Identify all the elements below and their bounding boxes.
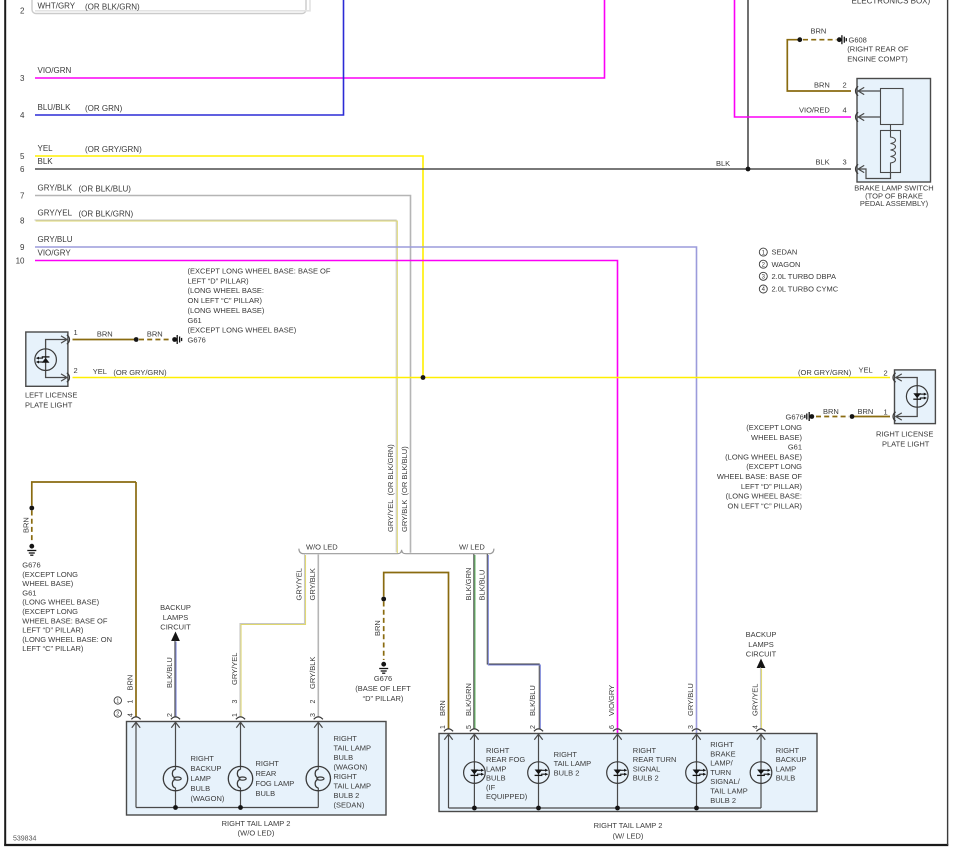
svg-text:RIGHT: RIGHT xyxy=(334,772,358,781)
svg-text:RIGHT: RIGHT xyxy=(486,746,510,755)
LED left license xyxy=(35,349,57,371)
svg-text:3: 3 xyxy=(688,725,695,729)
svg-text:SEDAN: SEDAN xyxy=(772,248,798,257)
wire BLK/GRN branch to right box xyxy=(473,554,475,729)
svg-text:(BASE OF LEFT: (BASE OF LEFT xyxy=(355,684,411,693)
pin 1 connector xyxy=(893,412,896,421)
wire internal left license xyxy=(46,340,67,378)
svg-text:6: 6 xyxy=(20,165,25,174)
bus right box xyxy=(449,807,762,809)
svg-text:RIGHT: RIGHT xyxy=(191,754,215,763)
svg-text:4: 4 xyxy=(128,713,135,717)
svg-text:GRY/BLK: GRY/BLK xyxy=(38,184,73,193)
pin connector xyxy=(613,729,622,731)
wire GRY/YEL row 8 xyxy=(34,220,396,552)
svg-text:YEL: YEL xyxy=(38,144,54,153)
wire internal pin2 xyxy=(858,90,881,92)
svg-text:2: 2 xyxy=(530,725,537,729)
brake switch contact block xyxy=(881,89,904,125)
arrow xyxy=(896,374,902,381)
pin connector xyxy=(856,164,859,173)
circled 1 xyxy=(114,697,121,704)
svg-text:BRN: BRN xyxy=(814,81,830,90)
svg-text:2: 2 xyxy=(116,712,119,718)
svg-text:2: 2 xyxy=(74,366,78,375)
svg-text:RIGHT: RIGHT xyxy=(633,746,657,755)
svg-text:TAIL LAMP: TAIL LAMP xyxy=(334,744,372,753)
bulb right tail lamp xyxy=(306,766,330,790)
wire internal from bulb xyxy=(240,788,242,808)
svg-text:RIGHT: RIGHT xyxy=(776,746,800,755)
wire GRY/BLU row 9 xyxy=(35,247,697,734)
notes sedan/wagon/turbo xyxy=(759,248,767,256)
pin 1 connector xyxy=(67,335,70,344)
svg-text:(EXCEPT LONG WHEEL BASE): (EXCEPT LONG WHEEL BASE) xyxy=(188,326,297,335)
bus left box xyxy=(136,807,318,809)
LED right rear fog xyxy=(464,762,486,784)
LED right backup xyxy=(750,762,772,784)
junction xyxy=(29,506,34,511)
arrow xyxy=(858,87,864,94)
svg-text:RIGHT LICENSE: RIGHT LICENSE xyxy=(876,430,933,439)
svg-text:BULB 2: BULB 2 xyxy=(633,774,659,783)
svg-text:GRY/YEL: GRY/YEL xyxy=(751,684,760,716)
svg-text:W/ LED: W/ LED xyxy=(459,543,485,552)
svg-text:ELECTRONICS BOX): ELECTRONICS BOX) xyxy=(852,0,931,6)
svg-text:BRN: BRN xyxy=(126,675,135,691)
svg-text:(EXCEPT LONG: (EXCEPT LONG xyxy=(746,462,802,471)
wire GRY/YEL to right box xyxy=(759,667,761,728)
svg-text:1: 1 xyxy=(884,408,888,417)
svg-text:(OR GRY/GRN): (OR GRY/GRN) xyxy=(113,368,167,377)
bulb right backup lamp (wagon) xyxy=(163,766,187,790)
svg-text:SIGNAL/: SIGNAL/ xyxy=(710,777,741,786)
wire BLK vertical from top xyxy=(747,0,749,169)
junction xyxy=(837,37,842,42)
svg-text:BLK/BLU: BLK/BLU xyxy=(165,657,174,688)
arrow xyxy=(534,734,542,740)
svg-text:TAIL LAMP: TAIL LAMP xyxy=(334,782,372,791)
pin connector xyxy=(131,717,140,719)
svg-text:BULB 2: BULB 2 xyxy=(554,768,580,777)
svg-text:RIGHT TAIL LAMP 2: RIGHT TAIL LAMP 2 xyxy=(222,819,291,828)
right tail lamp 2 (W/ LED) box xyxy=(439,734,817,812)
svg-text:BRN: BRN xyxy=(21,517,30,533)
svg-text:LAMP: LAMP xyxy=(191,774,211,783)
wire BRN left license xyxy=(73,339,135,341)
wire BRN to G676 far left xyxy=(32,482,136,506)
arrow xyxy=(470,734,478,740)
wire BLK/BLU branch to right box xyxy=(487,554,539,729)
coil xyxy=(891,125,896,173)
pin connector xyxy=(470,729,479,731)
svg-text:ON LEFT “C” PILLAR): ON LEFT “C” PILLAR) xyxy=(188,296,263,305)
pin connector xyxy=(314,717,323,719)
svg-text:5: 5 xyxy=(466,725,473,729)
svg-text:BULB: BULB xyxy=(334,753,354,762)
svg-text:LAMP/: LAMP/ xyxy=(710,759,733,768)
svg-text:3: 3 xyxy=(20,74,25,83)
svg-text:(OR GRN): (OR GRN) xyxy=(85,104,123,113)
svg-text:BULB: BULB xyxy=(486,774,506,783)
pin connector xyxy=(856,86,859,95)
svg-text:(LONG WHEEL BASE): (LONG WHEEL BASE) xyxy=(188,306,265,315)
svg-text:PEDAL ASSEMBLY): PEDAL ASSEMBLY) xyxy=(860,199,929,208)
wire BRN dashed center xyxy=(383,602,385,661)
svg-text:BLK: BLK xyxy=(716,159,730,168)
svg-text:BULB 2: BULB 2 xyxy=(334,791,360,800)
wire internal to bulb xyxy=(317,722,319,770)
svg-text:GRY/BLK: GRY/BLK xyxy=(308,657,317,689)
ground G676 center xyxy=(379,669,388,674)
ground G676 xyxy=(27,551,36,556)
svg-text:BLK: BLK xyxy=(816,158,830,167)
arrow xyxy=(613,734,621,740)
wire GRY/BLK branch to left box xyxy=(317,555,319,718)
svg-text:BACKUP: BACKUP xyxy=(160,603,191,612)
svg-text:BULB: BULB xyxy=(191,784,211,793)
bulb right rear fog lamp xyxy=(228,766,252,790)
svg-text:4: 4 xyxy=(753,725,760,729)
svg-text:W/O LED: W/O LED xyxy=(306,543,338,552)
svg-text:(LONG WHEEL BASE:: (LONG WHEEL BASE: xyxy=(188,286,264,295)
arrow xyxy=(171,722,179,728)
svg-text:LEFT “D” PILLAR): LEFT “D” PILLAR) xyxy=(741,482,803,491)
svg-text:2.0L TURBO CYMC: 2.0L TURBO CYMC xyxy=(772,285,839,294)
wire VIO/GRY row 10 xyxy=(35,261,618,734)
svg-text:WHEEL BASE): WHEEL BASE) xyxy=(751,433,802,442)
svg-text:TAIL LAMP: TAIL LAMP xyxy=(710,787,748,796)
frame left border xyxy=(4,0,6,846)
svg-text:1: 1 xyxy=(116,699,119,705)
arrow xyxy=(444,734,452,740)
svg-text:2: 2 xyxy=(843,81,847,90)
circled 2 xyxy=(114,710,121,717)
svg-text:1: 1 xyxy=(440,725,447,729)
frame bottom border xyxy=(4,844,948,846)
svg-text:BLK/BLU: BLK/BLU xyxy=(528,685,537,716)
wire internal LED column xyxy=(760,734,762,809)
arrow xyxy=(858,113,864,120)
svg-text:(WAGON): (WAGON) xyxy=(191,794,225,803)
svg-text:CIRCUIT: CIRCUIT xyxy=(746,650,777,659)
svg-text:BULB: BULB xyxy=(256,789,276,798)
wire GRY/YEL branch to left box xyxy=(240,554,305,717)
wire internal from bulb xyxy=(175,788,177,808)
svg-text:(LONG WHEEL BASE): (LONG WHEEL BASE) xyxy=(725,452,802,461)
ground G608 xyxy=(842,35,846,44)
junction BLK xyxy=(746,167,751,172)
junction bus xyxy=(536,806,541,811)
wire BLK row 6 xyxy=(35,168,851,170)
svg-text:(SEDAN): (SEDAN) xyxy=(334,801,365,810)
svg-text:EQUIPPED): EQUIPPED) xyxy=(486,792,528,801)
svg-text:GRY/BLU: GRY/BLU xyxy=(686,683,695,716)
junction xyxy=(797,37,802,42)
wire BRN right license xyxy=(852,416,890,418)
svg-text:2.0L TURBO DBPA: 2.0L TURBO DBPA xyxy=(772,272,836,281)
svg-text:2: 2 xyxy=(20,7,25,16)
svg-text:(OR BLK/GRN): (OR BLK/GRN) xyxy=(85,3,140,12)
junction xyxy=(809,414,814,419)
svg-text:ON LEFT “C” PILLAR): ON LEFT “C” PILLAR) xyxy=(728,501,803,510)
svg-text:GRY/BLK (OR BLK/BLU): GRY/BLK (OR BLK/BLU) xyxy=(400,446,409,532)
wire BRN center to right box xyxy=(384,573,449,730)
svg-text:(OR BLK/BLU): (OR BLK/BLU) xyxy=(79,185,132,194)
pin connector xyxy=(444,729,453,731)
wire internal col1 right box xyxy=(448,734,450,809)
svg-text:GRY/YEL: GRY/YEL xyxy=(295,568,304,600)
svg-text:RIGHT: RIGHT xyxy=(334,734,358,743)
arrow xyxy=(757,734,765,740)
svg-text:ENGINE COMPT): ENGINE COMPT) xyxy=(847,54,908,63)
LED right license xyxy=(906,386,928,408)
svg-text:3: 3 xyxy=(310,713,317,717)
svg-text:VIO/GRY: VIO/GRY xyxy=(38,249,72,258)
arrow backup left xyxy=(171,632,180,642)
svg-text:LEFT LICENSE: LEFT LICENSE xyxy=(25,391,77,400)
svg-text:GRY/YEL: GRY/YEL xyxy=(38,209,73,218)
wire VIO/RED xyxy=(735,0,852,117)
wire internal to bulb xyxy=(175,722,177,770)
svg-text:LAMP: LAMP xyxy=(486,764,506,773)
LED right brake/turn/tail xyxy=(686,762,708,784)
svg-text:BRN: BRN xyxy=(811,27,827,36)
junction xyxy=(381,597,386,602)
svg-text:(OR GRY/GRN): (OR GRY/GRN) xyxy=(798,368,852,377)
svg-text:VIO/GRY: VIO/GRY xyxy=(607,685,616,716)
junction xyxy=(381,662,386,667)
svg-text:RIGHT: RIGHT xyxy=(554,750,578,759)
wire BRN to left tail lamp xyxy=(135,482,137,717)
frame right border xyxy=(947,0,949,845)
svg-text:(WAGON): (WAGON) xyxy=(334,763,368,772)
svg-text:G61: G61 xyxy=(788,443,802,452)
pin connector xyxy=(534,729,543,731)
svg-text:G608: G608 xyxy=(849,36,867,45)
svg-text:BLK/GRN: BLK/GRN xyxy=(464,568,473,601)
wire VIO/GRN row 3 xyxy=(35,0,605,78)
svg-text:G676: G676 xyxy=(374,674,392,683)
svg-text:GRY/BLK: GRY/BLK xyxy=(308,568,317,600)
arrow xyxy=(61,336,67,343)
svg-text:(LONG WHEEL BASE:: (LONG WHEEL BASE: xyxy=(726,492,802,501)
svg-text:G61: G61 xyxy=(188,316,202,325)
svg-text:BLK: BLK xyxy=(38,157,54,166)
svg-text:WHEEL BASE): WHEEL BASE) xyxy=(22,579,73,588)
svg-text:VIO/RED: VIO/RED xyxy=(799,106,830,115)
svg-text:3: 3 xyxy=(232,700,239,704)
junction bus xyxy=(472,806,477,811)
svg-text:LAMPS: LAMPS xyxy=(748,640,773,649)
brake switch coil box xyxy=(881,131,901,173)
junction xyxy=(172,337,177,342)
arrow xyxy=(896,413,902,420)
svg-text:YEL: YEL xyxy=(859,366,873,375)
arrow xyxy=(132,722,140,728)
svg-text:1: 1 xyxy=(74,328,78,337)
pin connector xyxy=(692,729,701,731)
svg-text:LAMPS: LAMPS xyxy=(163,613,188,622)
arrow xyxy=(692,734,700,740)
svg-text:(EXCEPT LONG: (EXCEPT LONG xyxy=(22,570,78,579)
svg-text:3: 3 xyxy=(843,158,847,167)
right license plate light box xyxy=(895,370,936,424)
wire internal right license xyxy=(896,378,917,417)
svg-text:BLK/GRN: BLK/GRN xyxy=(464,683,473,716)
svg-text:BRN: BRN xyxy=(147,330,163,339)
svg-text:4: 4 xyxy=(843,106,847,115)
wire internal to bulb xyxy=(240,722,242,770)
junction bus xyxy=(238,805,243,810)
junction xyxy=(29,544,34,549)
pin 2 connector xyxy=(893,373,896,382)
arrow xyxy=(858,165,864,172)
svg-text:REAR TURN: REAR TURN xyxy=(633,755,677,764)
svg-text:BLK/BLU: BLK/BLU xyxy=(477,570,486,601)
svg-text:VIO/GRN: VIO/GRN xyxy=(38,66,72,75)
svg-text:YEL: YEL xyxy=(93,367,107,376)
wire BRN dashed xyxy=(31,511,33,543)
svg-text:G676: G676 xyxy=(786,413,804,422)
svg-text:G676: G676 xyxy=(188,335,206,344)
svg-text:8: 8 xyxy=(20,217,25,226)
svg-text:WHT/GRY: WHT/GRY xyxy=(38,2,76,11)
svg-text:BULB 2: BULB 2 xyxy=(710,796,736,805)
svg-text:BACKUP: BACKUP xyxy=(746,630,777,639)
svg-text:4: 4 xyxy=(20,111,25,120)
pin connector xyxy=(856,112,859,121)
svg-text:5: 5 xyxy=(20,152,25,161)
svg-text:RIGHT: RIGHT xyxy=(710,740,734,749)
svg-text:BRN: BRN xyxy=(823,407,839,416)
svg-text:(EXCEPT LONG WHEEL BASE: BASE: (EXCEPT LONG WHEEL BASE: BASE OF xyxy=(188,267,331,276)
arrow xyxy=(61,374,67,381)
right tail lamp 2 (W/O LED) box xyxy=(127,722,387,816)
highlight box around row 2 label xyxy=(32,0,306,14)
svg-text:WHEEL BASE: BASE OF: WHEEL BASE: BASE OF xyxy=(22,616,108,625)
svg-text:1: 1 xyxy=(232,713,239,717)
svg-text:2: 2 xyxy=(310,700,317,704)
svg-text:2: 2 xyxy=(167,713,174,717)
svg-text:RIGHT TAIL LAMP 2: RIGHT TAIL LAMP 2 xyxy=(594,821,663,830)
svg-text:CIRCUIT: CIRCUIT xyxy=(160,623,191,632)
svg-text:BRN: BRN xyxy=(373,620,382,636)
svg-text:(LONG WHEEL BASE: ON: (LONG WHEEL BASE: ON xyxy=(22,635,112,644)
junction bus xyxy=(173,805,178,810)
svg-text:PLATE LIGHT: PLATE LIGHT xyxy=(25,400,73,409)
svg-text:LAMP: LAMP xyxy=(776,764,796,773)
pin connector xyxy=(171,717,180,719)
svg-text:2: 2 xyxy=(884,369,888,378)
svg-text:BULB: BULB xyxy=(776,774,796,783)
svg-text:FOG LAMP: FOG LAMP xyxy=(256,779,295,788)
svg-text:LEFT “D” PILLAR): LEFT “D” PILLAR) xyxy=(22,626,84,635)
svg-text:7: 7 xyxy=(20,192,25,201)
svg-text:6: 6 xyxy=(609,725,616,729)
pin connector xyxy=(756,729,765,731)
svg-text:10: 10 xyxy=(16,257,25,266)
wire internal col1 xyxy=(135,722,137,808)
LED right rear turn signal xyxy=(607,762,629,784)
svg-text:GRY/YEL: GRY/YEL xyxy=(230,653,239,685)
svg-text:(LONG WHEEL BASE): (LONG WHEEL BASE) xyxy=(22,598,99,607)
svg-text:TAIL LAMP: TAIL LAMP xyxy=(554,759,592,768)
wire internal LED column xyxy=(696,734,698,809)
svg-text:SIGNAL: SIGNAL xyxy=(633,764,661,773)
svg-text:(OR BLK/GRN): (OR BLK/GRN) xyxy=(79,210,134,219)
svg-text:PLATE LIGHT: PLATE LIGHT xyxy=(882,439,930,448)
svg-text:(W/O LED): (W/O LED) xyxy=(238,829,275,838)
svg-text:REAR FOG: REAR FOG xyxy=(486,755,525,764)
wire internal LED column xyxy=(538,734,540,809)
wire BRN to brake switch xyxy=(787,40,851,91)
arrow xyxy=(314,722,322,728)
svg-text:LEFT “D” PILLAR): LEFT “D” PILLAR) xyxy=(188,276,250,285)
junction bus xyxy=(694,806,699,811)
arrow xyxy=(236,722,244,728)
svg-text:BACKUP: BACKUP xyxy=(191,764,222,773)
arrow backup right xyxy=(757,659,766,669)
wire BRN dashed xyxy=(139,339,170,341)
svg-text:GRY/BLU: GRY/BLU xyxy=(38,235,73,244)
svg-text:WHEEL BASE: BASE OF: WHEEL BASE: BASE OF xyxy=(717,472,803,481)
wire BLK/BLU to left box xyxy=(174,640,176,716)
svg-text:G676: G676 xyxy=(22,561,40,570)
junction xyxy=(134,337,139,342)
wire YEL row 5 xyxy=(35,156,423,378)
svg-text:BLU/BLK: BLU/BLK xyxy=(38,103,72,112)
svg-text:G61: G61 xyxy=(22,588,36,597)
svg-text:BRN: BRN xyxy=(97,330,113,339)
ground G676 xyxy=(805,412,809,421)
svg-text:539834: 539834 xyxy=(13,836,36,843)
svg-text:RIGHT: RIGHT xyxy=(256,759,280,768)
wire BRN dashed to G608 xyxy=(803,39,837,41)
pin 2 connector xyxy=(67,373,70,382)
left license plate light box xyxy=(26,332,68,386)
svg-text:WAGON: WAGON xyxy=(772,260,801,269)
svg-text:REAR: REAR xyxy=(256,769,277,778)
svg-text:“D” PILLAR): “D” PILLAR) xyxy=(363,694,404,703)
svg-text:BRAKE: BRAKE xyxy=(710,749,735,758)
svg-text:BACKUP: BACKUP xyxy=(776,755,807,764)
junction xyxy=(850,414,855,419)
junction bus xyxy=(615,806,620,811)
wire internal LED column xyxy=(473,734,475,809)
wire internal from bulb xyxy=(317,788,319,808)
junction YEL xyxy=(421,375,426,380)
brake lamp switch box xyxy=(857,79,931,183)
wire YEL license plate lights xyxy=(73,377,891,379)
svg-text:(OR GRY/GRN): (OR GRY/GRN) xyxy=(85,145,142,154)
brace xyxy=(299,549,494,554)
pin connector xyxy=(236,717,245,719)
wire internal pin3 xyxy=(858,169,890,179)
svg-text:BRN: BRN xyxy=(438,700,447,716)
svg-text:(IF: (IF xyxy=(486,783,496,792)
wire internal pin4 xyxy=(858,116,881,118)
svg-text:(EXCEPT LONG: (EXCEPT LONG xyxy=(746,423,802,432)
svg-text:BRN: BRN xyxy=(858,407,874,416)
svg-text:(W/ LED): (W/ LED) xyxy=(613,831,644,840)
svg-text:1: 1 xyxy=(128,700,135,704)
ground G676 xyxy=(177,335,181,344)
svg-text:TURN: TURN xyxy=(710,768,731,777)
wire BLU/BLK row 4 xyxy=(35,0,344,115)
svg-text:GRY/YEL (OR BLK/GRN): GRY/YEL (OR BLK/GRN) xyxy=(386,444,395,532)
wire BRN dashed xyxy=(816,416,849,418)
